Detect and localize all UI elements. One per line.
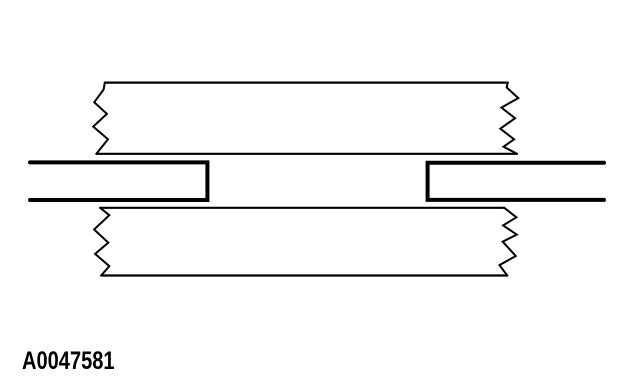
lower pipe section bottom edge: [101, 274, 507, 276]
lower pipe section right break line (zigzag): [500, 208, 517, 276]
upper pipe section left break line (zigzag): [93, 83, 108, 154]
right sleeve (thick open-ended channel): [428, 163, 604, 200]
upper pipe section right break line (zigzag): [500, 83, 518, 154]
left sleeve (thick open-ended channel): [30, 162, 207, 200]
lower pipe section top edge: [100, 207, 504, 209]
upper pipe section bottom edge: [96, 153, 517, 155]
upper pipe section top edge: [105, 81, 508, 83]
svg-text:A0047581: A0047581: [22, 346, 115, 375]
lower pipe section left break line (zigzag): [94, 208, 109, 276]
